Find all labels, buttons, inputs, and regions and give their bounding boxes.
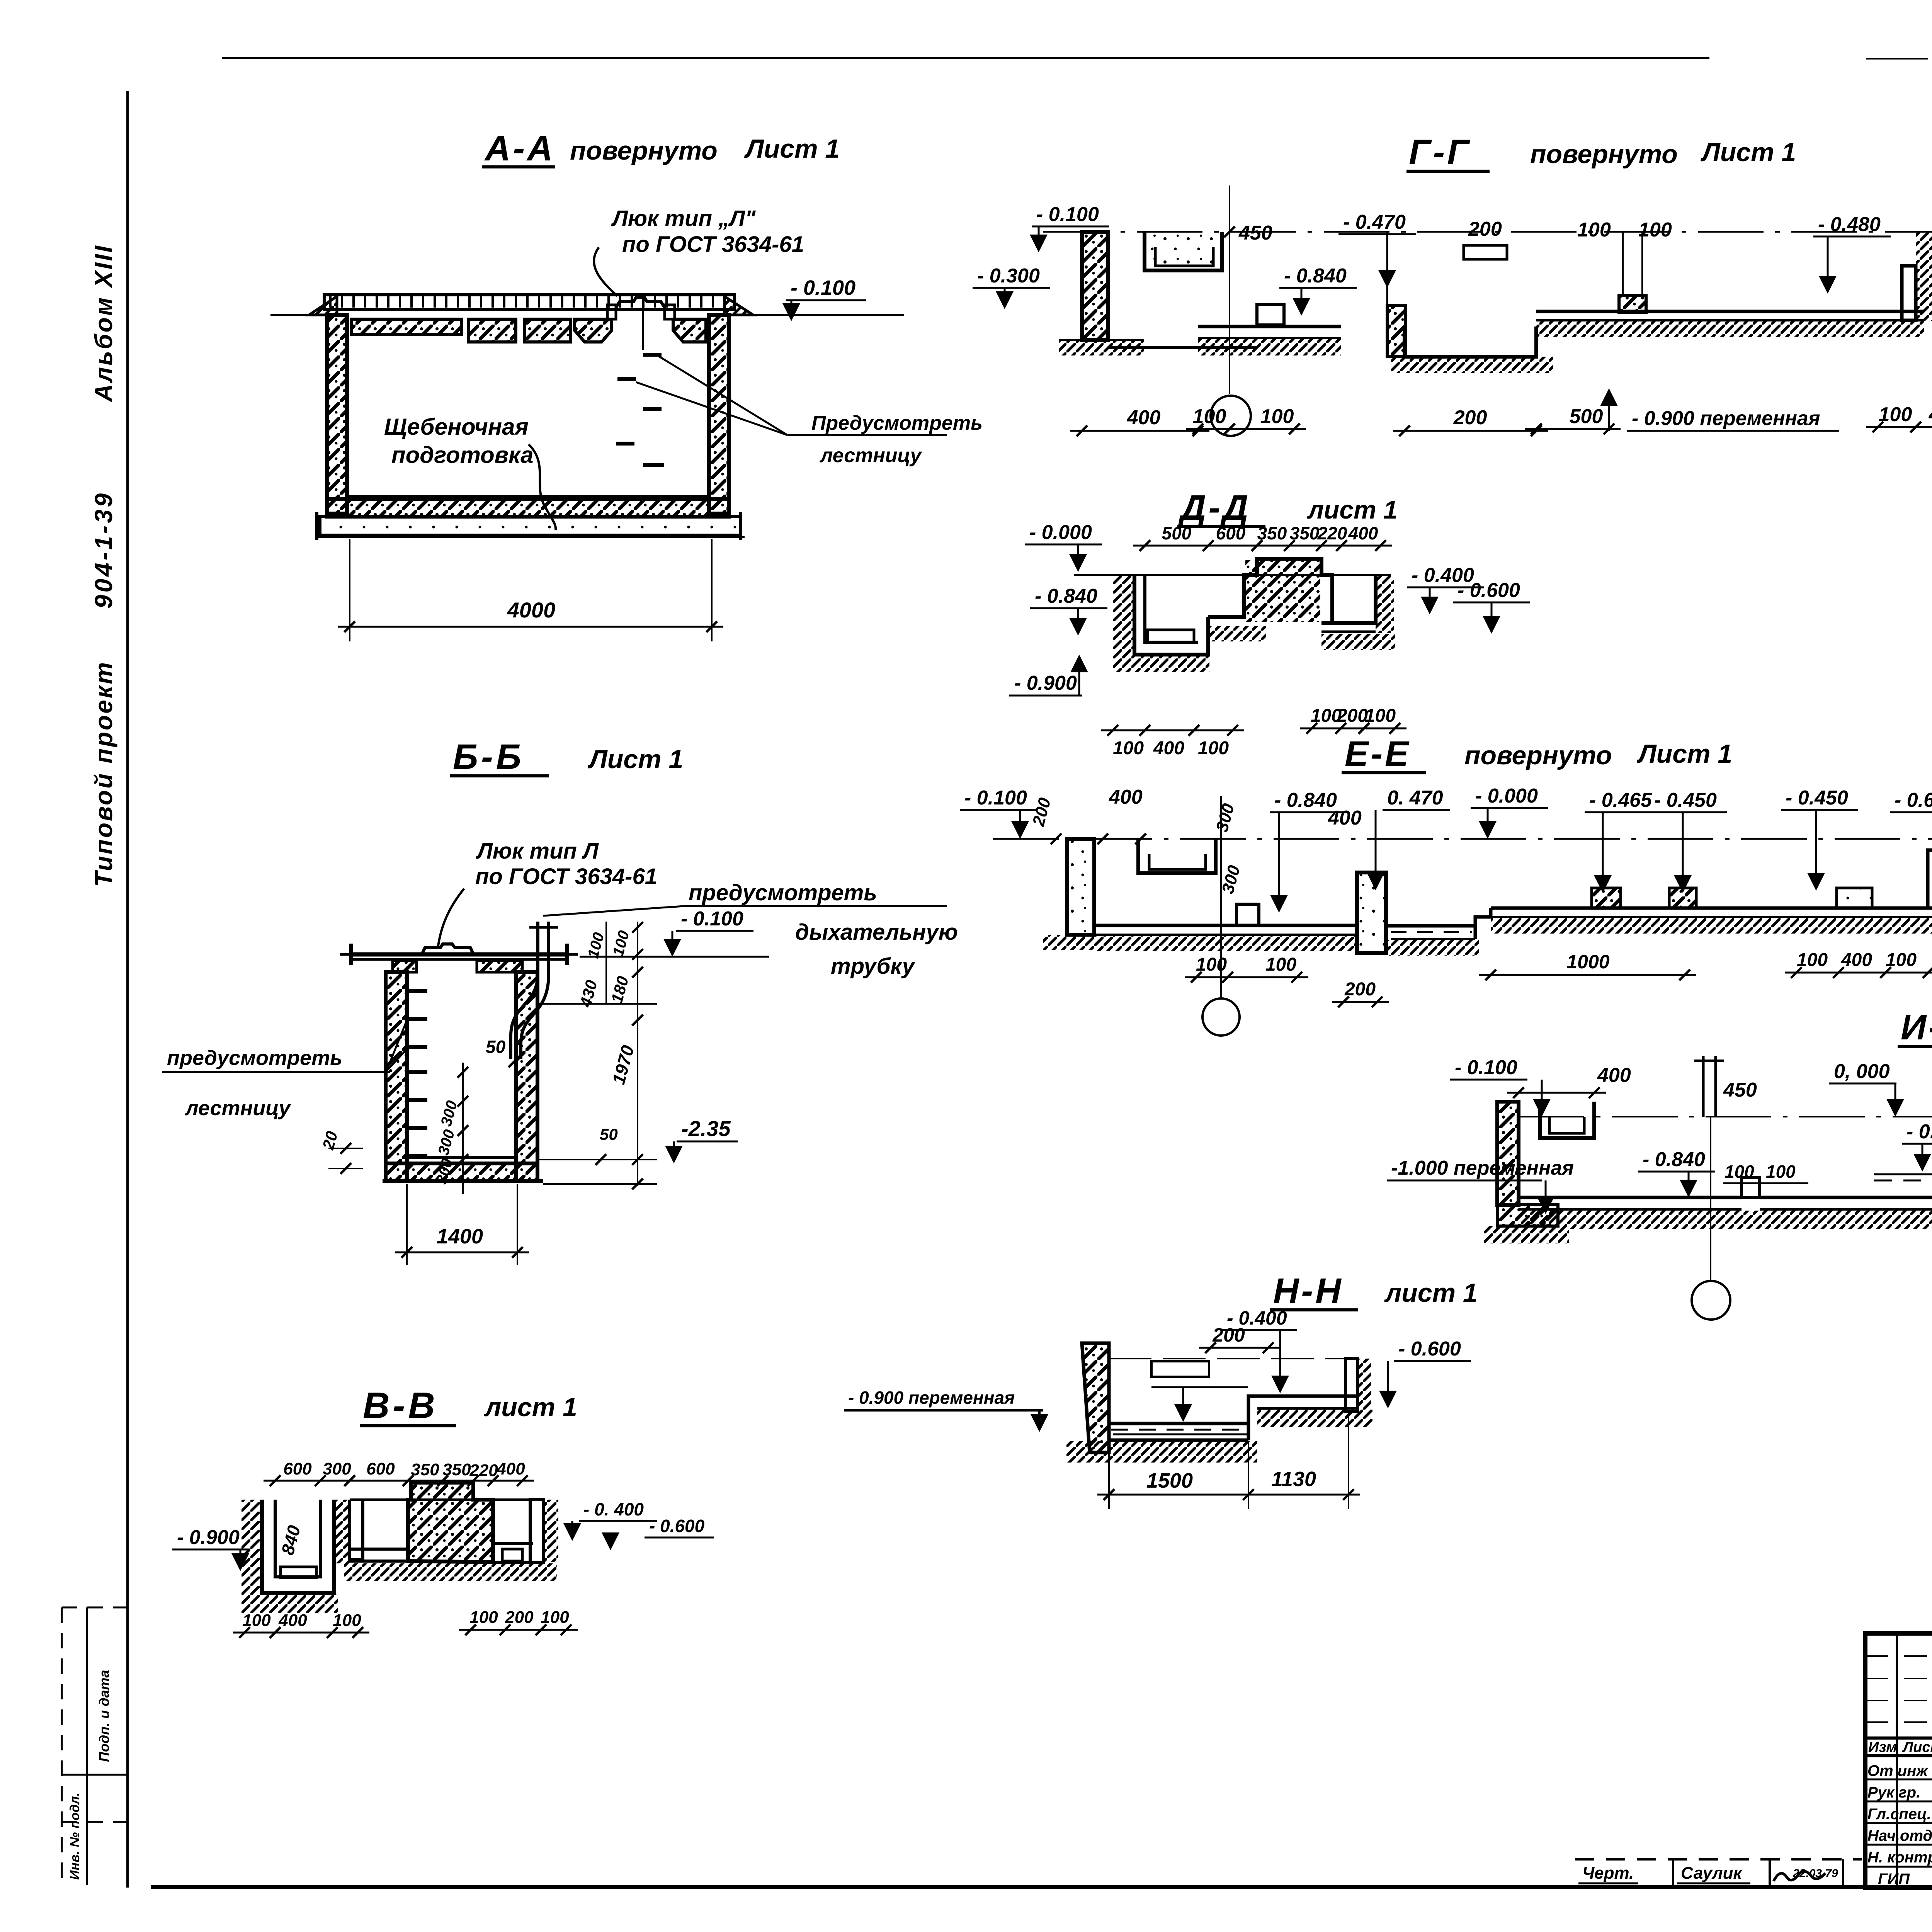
Д-Д surround hatch left xyxy=(1113,575,1134,656)
A-A dimension 4000 xyxy=(349,539,350,641)
svg-text:А-А: А-А xyxy=(484,129,555,168)
svg-text:Нач.отд.: Нач.отд. xyxy=(1867,1827,1932,1844)
svg-text:4000: 4000 xyxy=(507,598,556,622)
svg-text:220: 220 xyxy=(469,1461,498,1480)
svg-text:450: 450 xyxy=(1238,222,1272,244)
svg-text:Альбом XIII: Альбом XIII xyxy=(90,244,117,403)
svg-text:Г-Г: Г-Г xyxy=(1409,133,1471,172)
В-В right hatch xyxy=(544,1500,558,1562)
Г-Г floor slab left part xyxy=(1108,346,1257,349)
A-A bottom edge line xyxy=(315,536,745,538)
svg-text:- 0.470: - 0.470 xyxy=(1343,211,1406,233)
A-A manhole frame posts xyxy=(607,305,616,319)
svg-text:180: 180 xyxy=(607,974,632,1005)
Е-Е step up xyxy=(1475,908,1491,939)
svg-text:Гл.спец.: Гл.спец. xyxy=(1867,1806,1931,1823)
svg-text:-2.35: -2.35 xyxy=(681,1116,731,1141)
svg-text:- 0.100: - 0.100 xyxy=(1455,1056,1517,1079)
A-A interior floor line xyxy=(347,495,709,498)
A-A label ladder leader xyxy=(659,356,787,435)
Г-Г right bottom dims xyxy=(1866,426,1927,428)
svg-text:Изм: Изм xyxy=(1868,1739,1897,1755)
Д-Д top dim row xyxy=(1133,545,1220,547)
svg-text:- 0.700: - 0.700 xyxy=(1906,1121,1932,1143)
В-В right pad xyxy=(502,1549,522,1561)
svg-text:- 0.840: - 0.840 xyxy=(1643,1148,1705,1171)
title block name row lines xyxy=(1865,1779,1932,1781)
svg-text:Н. контр.: Н. контр. xyxy=(1867,1849,1932,1866)
svg-text:600: 600 xyxy=(1216,523,1246,543)
A-A footing slab xyxy=(320,517,740,535)
svg-text:подготовка: подготовка xyxy=(391,442,534,468)
svg-text:- 0.840: - 0.840 xyxy=(1274,789,1337,811)
svg-text:- 0.900: - 0.900 xyxy=(177,1526,240,1549)
page frame left border xyxy=(126,91,129,1888)
svg-text:лестницу: лестницу xyxy=(819,444,922,467)
svg-text:1500: 1500 xyxy=(1146,1469,1193,1492)
svg-text:200: 200 xyxy=(505,1608,534,1627)
A-A manhole cover xyxy=(616,298,665,308)
svg-text:- 0.000: - 0.000 xyxy=(1475,785,1538,807)
В-В left pit xyxy=(262,1500,334,1593)
svg-text:100: 100 xyxy=(1725,1162,1754,1182)
Г-Г level line xyxy=(1043,231,1932,233)
svg-text:200: 200 xyxy=(1029,796,1055,828)
Б-Б cover beam xyxy=(351,952,567,957)
svg-text:- 0.600: - 0.600 xyxy=(1895,789,1932,811)
A-A left edge wedge xyxy=(309,296,337,315)
A-A ladder rungs xyxy=(643,353,662,357)
page top edge line xyxy=(222,57,1709,59)
svg-text:Инв. № подл.: Инв. № подл. xyxy=(68,1793,82,1880)
Н-Н lower floor xyxy=(1109,1422,1248,1425)
Н-Н step xyxy=(1248,1396,1257,1440)
Б-Б right dim chain xyxy=(605,922,607,1005)
svg-text:лист 1: лист 1 xyxy=(1307,495,1398,524)
svg-text:Е-Е: Е-Е xyxy=(1345,734,1411,774)
svg-text:350: 350 xyxy=(1290,523,1320,543)
svg-text:предусмотреть: предусмотреть xyxy=(689,880,877,905)
Г-Г lintel above pit xyxy=(1464,245,1507,259)
В-В top dim row xyxy=(264,1480,332,1482)
svg-text:22.03.79: 22.03.79 xyxy=(1793,1867,1838,1880)
Е-Е pad 3 xyxy=(1837,888,1872,908)
svg-text:- 0.100: - 0.100 xyxy=(791,276,855,299)
Е-Е mid pedestal xyxy=(1357,872,1386,953)
Н-Н left wall xyxy=(1082,1343,1109,1452)
Г-Г pit xyxy=(1405,327,1536,357)
svg-text:Б-Б: Б-Б xyxy=(453,737,524,777)
Е-Е top channel xyxy=(1138,839,1216,873)
svg-text:дыхательную: дыхательную xyxy=(795,920,958,945)
Е-Е left ground hatch xyxy=(1043,935,1113,950)
left bottom auxiliary table xyxy=(62,1607,128,1609)
svg-text:Черт.: Черт. xyxy=(1582,1864,1634,1883)
svg-text:И-И: И-И xyxy=(1901,1008,1932,1047)
svg-text:Люк тип Л: Люк тип Л xyxy=(476,838,599,864)
И-И axis line and circle xyxy=(1710,1117,1711,1281)
svg-text:0. 470: 0. 470 xyxy=(1387,787,1443,809)
В-В bottom dims right xyxy=(459,1629,517,1631)
svg-text:840: 840 xyxy=(277,1523,304,1557)
В-В center trough xyxy=(350,1500,363,1560)
svg-text:400: 400 xyxy=(1127,406,1161,429)
И-И ground hatch band xyxy=(1519,1211,1932,1229)
svg-text:300: 300 xyxy=(1218,863,1244,896)
Б-Б cover blocks xyxy=(393,961,417,972)
Б-Б dimension 1400 xyxy=(406,1184,408,1265)
Н-Н right wall xyxy=(1345,1359,1357,1412)
svg-text:Лист: Лист xyxy=(1902,1739,1932,1755)
svg-text:904-1-39: 904-1-39 xyxy=(90,491,117,609)
svg-text:по ГОСТ 3634-61: по ГОСТ 3634-61 xyxy=(622,232,804,257)
svg-text:100: 100 xyxy=(1638,219,1672,241)
svg-text:100: 100 xyxy=(585,931,608,960)
svg-text:- 0.600: - 0.600 xyxy=(1458,579,1520,602)
svg-text:100: 100 xyxy=(333,1611,361,1630)
svg-text:300: 300 xyxy=(323,1459,351,1478)
svg-text:Лист 1: Лист 1 xyxy=(1700,138,1796,167)
Г-Г axis circle xyxy=(1211,396,1251,436)
svg-text:Типовой проект: Типовой проект xyxy=(90,661,117,887)
Б-Б inner dim chain 300s xyxy=(462,1063,464,1194)
svg-text:Саулик: Саулик xyxy=(1681,1864,1743,1883)
И-И riser pipe xyxy=(1702,1056,1705,1117)
Г-Г bottom dim row xyxy=(1070,430,1209,432)
В-В ground line center xyxy=(350,1498,544,1501)
svg-text:- 0.450: - 0.450 xyxy=(1786,787,1848,809)
A-A gravel leader xyxy=(529,444,556,530)
A-A right edge wedge xyxy=(724,296,753,315)
A-A cover slab 1 xyxy=(351,319,461,335)
svg-text:повернуто: повернуто xyxy=(570,136,718,165)
Б-Б hatch leader xyxy=(438,889,464,949)
Е-Е stub block xyxy=(1236,904,1259,925)
Е-Е bottom dims xyxy=(1185,976,1239,978)
svg-text:400: 400 xyxy=(1597,1064,1631,1087)
Е-Е right slab xyxy=(1491,906,1932,910)
Д-Д center hatch below xyxy=(1208,626,1266,641)
Е-Е level line xyxy=(993,838,1932,840)
svg-text:100: 100 xyxy=(1365,706,1396,726)
Е-Е floor left xyxy=(1094,924,1357,927)
И-И stub xyxy=(1742,1177,1760,1197)
title block left top dashed rows xyxy=(1865,1655,1932,1657)
И-И floor slab left xyxy=(1519,1196,1742,1199)
В-В bottom dims left xyxy=(233,1632,287,1634)
svg-text:- 0.100: - 0.100 xyxy=(1036,203,1099,226)
svg-text:- 0.900: - 0.900 xyxy=(1014,672,1077,694)
И-И top channel xyxy=(1540,1102,1594,1138)
Г-Г left wall xyxy=(1082,232,1108,340)
svg-text:100: 100 xyxy=(1193,405,1226,428)
svg-text:ГИП: ГИП xyxy=(1878,1871,1910,1888)
title block left columns xyxy=(1896,1633,1898,1888)
Е-Е left wall xyxy=(1067,839,1094,935)
svg-text:- 0.480: - 0.480 xyxy=(1818,213,1881,236)
svg-text:Подп. и дата: Подп. и дата xyxy=(96,1670,112,1762)
svg-text:50: 50 xyxy=(486,1037,506,1057)
Г-Г right slab xyxy=(1536,310,1924,313)
svg-text:400: 400 xyxy=(278,1611,307,1630)
chert saulik row xyxy=(1575,1858,1862,1861)
svg-text:трубку: трубку xyxy=(831,954,915,979)
svg-text:220: 220 xyxy=(1317,523,1347,543)
A-A footing end bars xyxy=(315,512,318,540)
svg-text:400: 400 xyxy=(1348,523,1378,543)
svg-text:50: 50 xyxy=(600,1125,618,1143)
Н-Н level line dashed xyxy=(1109,1358,1345,1359)
svg-text:100: 100 xyxy=(1879,403,1912,426)
svg-text:- 0.900 переменная: - 0.900 переменная xyxy=(1632,407,1820,430)
svg-text:Щебеночная: Щебеночная xyxy=(384,414,529,440)
Г-Г left wall ground hatch xyxy=(1059,340,1144,355)
svg-text:- 0. 400: - 0. 400 xyxy=(583,1499,644,1519)
A-A cover slab 2 xyxy=(469,319,516,342)
svg-text:лестницу: лестницу xyxy=(184,1097,291,1120)
svg-text:100: 100 xyxy=(1265,954,1296,975)
svg-text:1130: 1130 xyxy=(1271,1468,1316,1491)
svg-text:- 0.600: - 0.600 xyxy=(1398,1338,1461,1360)
В-В central mass xyxy=(408,1483,493,1562)
Н-Н equipment rect xyxy=(1151,1361,1209,1377)
A-A cover slab 3 xyxy=(524,319,570,342)
Н-Н bottom dims xyxy=(1108,1442,1110,1509)
A-A left wall xyxy=(327,315,347,514)
Г-Г floor slab xyxy=(1198,325,1341,328)
Б-Б ladder rungs xyxy=(407,989,427,993)
Д-Д bottom dims xyxy=(1101,730,1156,731)
Г-Г column axis xyxy=(1229,185,1230,394)
A-A top slab (planks) xyxy=(324,295,735,310)
И-И left wall xyxy=(1497,1102,1519,1205)
svg-text:по ГОСТ 3634-61: по ГОСТ 3634-61 xyxy=(475,864,657,889)
Д-Д right pit xyxy=(1321,575,1376,623)
Е-Е column axis xyxy=(1220,796,1222,997)
svg-text:-1.000 переменная: -1.000 переменная xyxy=(1391,1157,1574,1179)
svg-text:200: 200 xyxy=(1453,406,1487,429)
Б-Б ladder leader xyxy=(386,1020,407,1071)
Г-Г stub wall xyxy=(1257,304,1284,325)
svg-text:400: 400 xyxy=(1328,807,1362,829)
И-И floor middle xyxy=(1760,1196,1932,1199)
svg-text:100: 100 xyxy=(1196,954,1227,975)
svg-text:300: 300 xyxy=(1213,801,1238,834)
Б-Б breathing tube xyxy=(511,922,538,1059)
svg-text:300: 300 xyxy=(438,1099,461,1128)
Б-Б left wall xyxy=(386,972,407,1181)
svg-text:1970: 1970 xyxy=(608,1043,638,1087)
svg-text:600: 600 xyxy=(366,1459,395,1478)
svg-text:100: 100 xyxy=(469,1608,498,1627)
В-В right wall xyxy=(530,1500,544,1562)
Д-Д right surround hatch xyxy=(1376,575,1394,633)
svg-text:100: 100 xyxy=(610,929,633,958)
svg-text:100: 100 xyxy=(1797,950,1828,970)
title block header row lines xyxy=(1865,1736,1932,1740)
svg-text:500: 500 xyxy=(1162,523,1192,543)
A-A manhole centerline xyxy=(642,308,644,350)
svg-text:400: 400 xyxy=(1109,786,1143,808)
svg-text:100: 100 xyxy=(1198,738,1229,759)
Е-Е right end wall xyxy=(1928,850,1932,908)
svg-text:600: 600 xyxy=(283,1459,312,1478)
Е-Е pit floor xyxy=(1386,924,1475,928)
Б-Б bottom slab xyxy=(386,1163,537,1181)
В-В right trough xyxy=(493,1542,533,1545)
svg-text:- 0.000: - 0.000 xyxy=(1029,521,1092,544)
Г-Г right side hatch xyxy=(1916,232,1932,321)
svg-text:100: 100 xyxy=(1113,738,1144,759)
svg-text:430: 430 xyxy=(576,978,601,1009)
svg-text:100: 100 xyxy=(242,1611,271,1630)
Г-Г small pier xyxy=(1619,296,1646,313)
A-A ground line xyxy=(270,314,327,316)
svg-text:- 0.100: - 0.100 xyxy=(681,908,743,930)
A-A cover slab 4 xyxy=(575,319,612,342)
Н-Н right hatch xyxy=(1357,1359,1371,1412)
svg-text:- 0.900 переменная: - 0.900 переменная xyxy=(848,1388,1015,1408)
svg-text:350: 350 xyxy=(411,1460,439,1479)
Д-Д left pit floor pad xyxy=(1148,630,1194,642)
svg-text:400: 400 xyxy=(496,1459,525,1478)
Е-Е pad 1 xyxy=(1592,888,1621,908)
svg-text:- 0.450: - 0.450 xyxy=(1654,789,1717,811)
И-И ground level line xyxy=(1519,1116,1932,1117)
В-В ground hatch bottom xyxy=(344,1563,557,1581)
svg-text:100: 100 xyxy=(1886,950,1917,970)
Д-Д left pit walls xyxy=(1134,575,1208,655)
svg-text:Н-Н: Н-Н xyxy=(1273,1271,1344,1311)
Б-Б base line xyxy=(383,1179,543,1183)
И-И left footing xyxy=(1497,1205,1558,1226)
svg-text:0, 000: 0, 000 xyxy=(1834,1060,1890,1083)
svg-text:100: 100 xyxy=(541,1608,569,1627)
svg-text:300: 300 xyxy=(435,1128,458,1157)
page frame bottom border xyxy=(151,1885,1932,1889)
A-A bottom slab xyxy=(327,499,729,517)
svg-text:повернуто: повернуто xyxy=(1464,741,1612,770)
svg-text:400: 400 xyxy=(1929,403,1932,426)
Г-Г pit inner wall xyxy=(1387,305,1406,357)
Б-Б breathing tube leader xyxy=(543,906,684,916)
Е-Е pad 2 xyxy=(1669,888,1696,908)
svg-text:В-В: В-В xyxy=(363,1385,438,1426)
svg-text:От инж: От инж xyxy=(1867,1762,1929,1779)
svg-text:200: 200 xyxy=(1344,979,1376,1000)
svg-text:Предусмотреть: Предусмотреть xyxy=(811,412,983,434)
Д-Д center mass xyxy=(1208,559,1332,623)
svg-text:Лист 1: Лист 1 xyxy=(1636,739,1732,769)
svg-text:100: 100 xyxy=(1260,405,1294,428)
svg-text:- 0.300: - 0.300 xyxy=(977,265,1040,287)
svg-text:- 0.840: - 0.840 xyxy=(1284,265,1347,287)
Б-Б right wall xyxy=(516,972,537,1181)
svg-text:100: 100 xyxy=(1577,219,1611,241)
svg-text:400: 400 xyxy=(1153,738,1184,759)
svg-text:предусмотреть: предусмотреть xyxy=(167,1046,342,1070)
Б-Б interior floor line xyxy=(407,1156,516,1159)
svg-text:- 0.600: - 0.600 xyxy=(649,1516,705,1536)
Г-Г right end wall xyxy=(1902,266,1916,320)
svg-text:400: 400 xyxy=(1841,950,1872,970)
title block outer border xyxy=(1865,1633,1932,1888)
svg-text:500: 500 xyxy=(1570,405,1603,428)
svg-text:Рук гр.: Рук гр. xyxy=(1867,1784,1920,1801)
A-A cover slab right xyxy=(673,319,706,342)
В-В left surround hatch xyxy=(241,1500,262,1596)
svg-text:- 0.100: - 0.100 xyxy=(964,787,1027,809)
svg-text:100: 100 xyxy=(1766,1162,1796,1182)
Н-Н ground hatch xyxy=(1066,1441,1257,1463)
Н-Н dim 200 xyxy=(1199,1347,1280,1349)
A-A right wall xyxy=(709,315,729,514)
Б-Б beam end plates xyxy=(349,944,353,965)
svg-text:1000: 1000 xyxy=(1566,951,1609,973)
Д-Д ground level line xyxy=(1074,574,1391,576)
svg-text:200: 200 xyxy=(1337,706,1368,726)
svg-text:1400: 1400 xyxy=(437,1225,483,1248)
Н-Н upper floor xyxy=(1257,1395,1357,1398)
svg-text:Лист 1: Лист 1 xyxy=(587,745,683,774)
svg-text:- 0.840: - 0.840 xyxy=(1035,585,1097,607)
svg-text:лист 1: лист 1 xyxy=(1384,1278,1478,1308)
svg-text:Люк тип „Л": Люк тип „Л" xyxy=(611,206,756,231)
svg-text:450: 450 xyxy=(1723,1079,1757,1101)
svg-text:200: 200 xyxy=(1468,218,1502,240)
svg-text:200: 200 xyxy=(1212,1324,1245,1346)
Б-Б manhole profile xyxy=(422,944,473,953)
svg-text:- 0.465: - 0.465 xyxy=(1589,789,1652,811)
svg-text:лист 1: лист 1 xyxy=(484,1393,577,1422)
svg-text:350: 350 xyxy=(442,1460,471,1479)
svg-text:350: 350 xyxy=(1257,523,1287,543)
svg-text:Лист 1: Лист 1 xyxy=(744,134,840,163)
A-A hatch leader xyxy=(594,247,617,296)
svg-text:Д-Д: Д-Д xyxy=(1178,488,1251,527)
В-В left pit pad xyxy=(281,1567,316,1578)
Г-Г top channel xyxy=(1145,232,1222,270)
svg-text:повернуто: повернуто xyxy=(1530,139,1678,169)
